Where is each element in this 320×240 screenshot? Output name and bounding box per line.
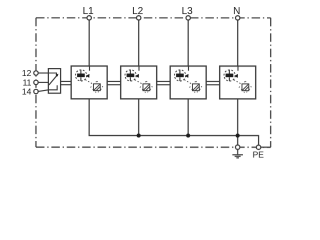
svg-text:PE: PE	[253, 149, 265, 159]
svg-text:L3: L3	[182, 6, 194, 17]
svg-text:N: N	[233, 6, 240, 17]
svg-text:L1: L1	[83, 6, 95, 17]
svg-text:L2: L2	[132, 6, 144, 17]
svg-text:14: 14	[22, 87, 32, 97]
